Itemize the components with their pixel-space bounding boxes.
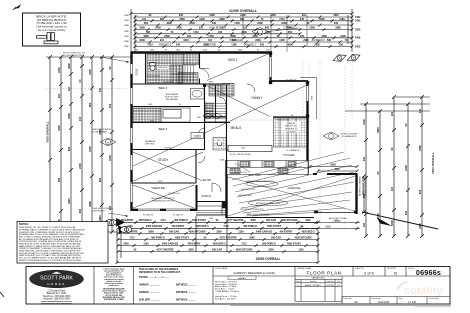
svg-text:2400: 2400 [78, 163, 82, 169]
svg-text:2360 ROBE: 2360 ROBE [204, 45, 217, 47]
svg-text:690: 690 [98, 177, 102, 182]
ensuite and stair hatch [147, 54, 183, 83]
svg-text:2980: 2980 [335, 27, 341, 30]
svg-text:3430: 3430 [57, 125, 61, 131]
bottom row cells [342, 297, 450, 305]
svg-text:690: 690 [160, 18, 165, 21]
ens2 hatch [209, 85, 221, 96]
svg-text:CONC FLOOR: CONC FLOOR [233, 172, 247, 174]
svg-text:2300: 2300 [268, 248, 274, 251]
svg-text:ROBE: ROBE [136, 68, 139, 75]
door arcs [198, 69, 255, 193]
svg-text:OWNER ...............: OWNER ............... [139, 291, 160, 294]
title block dividers [94, 267, 213, 305]
svg-text:240: 240 [300, 18, 305, 21]
svg-text:2300: 2300 [123, 242, 129, 245]
svg-text:WITNESS ...........: WITNESS ........... [176, 284, 196, 287]
svg-text:Drawn By: Drawn By [344, 298, 352, 300]
svg-text:11 Erindale Road,: 11 Erindale Road, [47, 290, 66, 293]
svg-text:WITNESS ...........: WITNESS ........... [176, 291, 196, 294]
svg-text:W.C.: W.C. [217, 140, 222, 142]
svg-text:110: 110 [67, 86, 71, 91]
svg-text:240: 240 [390, 111, 394, 116]
left dimension block [46, 55, 132, 234]
svg-text:permission.: permission. [108, 285, 119, 287]
svg-text:SCOTT PARK: SCOTT PARK [40, 276, 73, 282]
svg-text:2300: 2300 [216, 230, 222, 233]
svg-text:2400 GARAGE: 2400 GARAGE [146, 225, 163, 228]
svg-text:NOTE: CEILING IN BM: NOTE: CEILING IN BM [230, 154, 251, 156]
svg-text:450 ENTRY: 450 ENTRY [188, 242, 201, 245]
svg-text:PROVIDE 3 POWER PTS: PROVIDE 3 POWER PTS [240, 209, 264, 211]
island bench [228, 146, 272, 152]
svg-text:Balcatta W.A. 6021: Balcatta W.A. 6021 [47, 292, 67, 295]
svg-text:90 1840 90: 90 1840 90 [173, 215, 184, 217]
bath oval upstairs [191, 89, 205, 100]
svg-text:2980: 2980 [303, 39, 309, 42]
svg-text:4170 THEATRE: 4170 THEATRE [156, 248, 173, 251]
garage leader lines [232, 152, 354, 216]
svg-text:3430: 3430 [355, 20, 361, 23]
room label BED 3 [157, 127, 168, 131]
pantry note [281, 122, 301, 124]
interior walls [131, 53, 272, 202]
svg-text:2400: 2400 [355, 45, 361, 48]
svg-text:BUILDER .............: BUILDER ............. [139, 298, 160, 301]
svg-text:110: 110 [418, 108, 422, 113]
svg-text:90 1540 90: 90 1540 90 [143, 215, 154, 217]
svg-text:1712: 1712 [160, 219, 166, 222]
svg-text:SETBACK 31c BWK OVER: SETBACK 31c BWK OVER [256, 202, 281, 205]
svg-text:1100: 1100 [143, 242, 149, 245]
room label BED 2 [157, 86, 168, 90]
svg-text:4520 BED 3: 4520 BED 3 [138, 219, 152, 222]
svg-text:3400: 3400 [252, 35, 258, 38]
svg-text:HARMONY DESIGNER 2s (01CR): HARMONY DESIGNER 2s (01CR) [233, 271, 275, 275]
svg-text:100: 100 [212, 22, 217, 25]
svg-text:INFILL PANEL: INFILL PANEL [249, 174, 263, 177]
svg-text:1090: 1090 [321, 35, 327, 38]
stair treads [171, 65, 196, 83]
svg-text:3580: 3580 [188, 248, 194, 251]
svg-text:90 4580: 90 4580 [164, 147, 172, 149]
svg-text:110: 110 [98, 87, 102, 92]
svg-text:110: 110 [142, 18, 147, 21]
svg-text:230: 230 [179, 14, 184, 17]
svg-text:1200: 1200 [362, 119, 366, 125]
svg-text:1700: 1700 [208, 35, 214, 38]
svg-text:3430 BED 1: 3430 BED 1 [244, 45, 257, 47]
svg-text:4520 BED 3: 4520 BED 3 [212, 242, 226, 245]
svg-text:31c HIGH BRICK PIER: 31c HIGH BRICK PIER [63, 55, 84, 57]
svg-text:OH CPDS: OH CPDS [286, 132, 296, 134]
svg-text:890 PORCH: 890 PORCH [174, 219, 188, 222]
room label MEALS [230, 126, 242, 130]
svg-text:5390: 5390 [330, 164, 336, 167]
svg-text:1710: 1710 [193, 31, 199, 34]
svg-text:1100: 1100 [298, 248, 304, 251]
room diagonals garage [228, 176, 355, 216]
room diagonals study/theatre [133, 137, 203, 208]
svg-text:910: 910 [302, 14, 307, 17]
svg-text:2530: 2530 [189, 22, 195, 25]
svg-text:MEALS: MEALS [231, 126, 242, 130]
family fixture block [222, 84, 234, 97]
svg-text:590: 590 [327, 39, 332, 42]
svg-text:THEATRE (300 DROP): THEATRE (300 DROP) [152, 200, 174, 203]
svg-text:WITNESS ...........: WITNESS ........... [176, 298, 196, 301]
svg-text:590: 590 [57, 177, 61, 182]
svg-text:1363: 1363 [193, 134, 201, 138]
svg-text:2030: 2030 [241, 31, 247, 34]
diamond tag pair mid plan [203, 113, 222, 119]
room label PORCH [201, 194, 211, 198]
svg-text:4520 BED 3: 4520 BED 3 [301, 230, 315, 233]
svg-text:CEILING @ 28c: CEILING @ 28c [241, 189, 255, 191]
svg-text:240: 240 [108, 103, 112, 108]
svg-text:2400: 2400 [108, 155, 112, 161]
svg-text:2360: 2360 [418, 145, 422, 151]
svg-text:2400: 2400 [404, 165, 408, 171]
room diagonals bed1/family [196, 54, 308, 138]
svg-text:BWK: BWK [124, 41, 129, 43]
room label BED 1 [227, 58, 239, 62]
title block shadow [230, 305, 451, 307]
svg-text:1710: 1710 [279, 18, 285, 21]
svg-text:3580: 3580 [148, 230, 154, 233]
svg-text:4920 KITCHEN: 4920 KITCHEN [295, 236, 312, 239]
svg-text:3430: 3430 [176, 27, 182, 30]
svg-text:REFER TO ADDENDA FOR ALL PC FI: REFER TO ADDENDA FOR ALL PC FIXTURES, FI… [19, 259, 81, 262]
svg-text:BWK: BWK [124, 31, 129, 33]
svg-text:1200: 1200 [279, 39, 285, 42]
svg-text:590 GAR: 590 GAR [169, 230, 179, 233]
svg-text:3580: 3580 [249, 236, 255, 239]
svg-text:230: 230 [300, 35, 305, 38]
svg-text:4170 THEATRE: 4170 THEATRE [219, 236, 236, 239]
variations table [295, 276, 342, 301]
brick layer note box [23, 13, 81, 46]
svg-text:3430: 3430 [390, 220, 394, 226]
svg-text:100: 100 [187, 35, 192, 38]
svg-text:90 2300 90: 90 2300 90 [163, 82, 174, 84]
wall junction blocks [203, 52, 309, 118]
svg-text:VERANDA: VERANDA [145, 140, 156, 143]
svg-text:4690 BED 2: 4690 BED 2 [159, 45, 172, 47]
svg-text:GARAGE UNDER MAIN ROOF: GARAGE UNDER MAIN ROOF [246, 180, 275, 183]
diamond tags 2 and 3 [332, 47, 362, 68]
svg-text:STUDY: STUDY [158, 158, 170, 162]
svg-text:HOUSE NAME: HOUSE NAME [215, 267, 228, 270]
room label ENSUITE [157, 66, 169, 69]
svg-text:Checked By: Checked By [429, 298, 439, 300]
svg-text:NOTES:: NOTES: [19, 222, 29, 226]
svg-text:7920 OVERALL: 7920 OVERALL [431, 152, 435, 174]
svg-text:1712: 1712 [241, 242, 247, 245]
svg-text:910: 910 [78, 208, 82, 213]
svg-text:590 GAR: 590 GAR [266, 219, 276, 222]
svg-text:4170 THEATRE: 4170 THEATRE [226, 219, 243, 222]
svg-text:1:1 100: 1:1 100 [408, 301, 417, 304]
alfresco edge lines [300, 78, 317, 120]
svg-text:2980: 2980 [88, 201, 92, 207]
watermark cotality [396, 281, 443, 297]
svg-text:2 of 6: 2 of 6 [364, 272, 374, 276]
svg-text:2360: 2360 [179, 18, 185, 21]
svg-text:2360: 2360 [67, 113, 71, 119]
svg-text:110: 110 [208, 39, 213, 42]
porch steps [196, 202, 227, 215]
svg-text:FL CABINETS: FL CABINETS [287, 149, 300, 152]
svg-text:BEYOND: BEYOND [146, 144, 155, 146]
svg-text:910: 910 [418, 189, 422, 194]
svg-text:Date Var: Date Var [327, 280, 334, 283]
svg-text:240: 240 [218, 31, 223, 34]
svg-text:2400 GARAGE: 2400 GARAGE [162, 242, 179, 245]
title block outer [26, 267, 450, 305]
svg-text:2080: 2080 [230, 35, 236, 38]
bottom dimension block [116, 216, 320, 264]
dashed projection lines [17, 60, 345, 230]
svg-text:VARIATIONS: VARIATIONS [312, 277, 325, 280]
svg-text:4920 KITCHEN: 4920 KITCHEN [281, 219, 298, 222]
dims above garage top wall [309, 164, 359, 173]
svg-text:JOB No: JOB No [408, 268, 414, 270]
svg-text:890 PORCH: 890 PORCH [262, 242, 276, 245]
svg-text:BWK: BWK [124, 46, 129, 48]
svg-text:HIGHSCALE: HIGHSCALE [229, 39, 243, 42]
wc hatch [213, 138, 226, 151]
scott park homes logo [30, 270, 84, 288]
svg-text:110: 110 [243, 27, 248, 30]
svg-text:cotality: cotality [404, 285, 443, 297]
room label ENTRY [202, 178, 212, 182]
svg-text:1180: 1180 [339, 18, 345, 21]
svg-text:Rev: Rev [296, 281, 299, 283]
pantry hatch [274, 118, 308, 147]
svg-text:2030: 2030 [319, 18, 325, 21]
stair landing hatch [205, 103, 213, 116]
svg-text:4920 KITCHEN: 4920 KITCHEN [189, 230, 206, 233]
room label THEATRE [151, 186, 166, 190]
room label GARAGE [287, 186, 300, 190]
svg-text:5390: 5390 [325, 225, 331, 228]
svg-text:OWNER ...............: OWNER ............... [139, 284, 160, 287]
svg-text:110: 110 [390, 186, 394, 191]
svg-text:4920: 4920 [334, 168, 340, 171]
svg-text:1090: 1090 [209, 14, 215, 17]
svg-text:ENSUITE: ENSUITE [158, 67, 168, 69]
svg-text:110: 110 [404, 210, 408, 215]
svg-text:890 PORCH: 890 PORCH [243, 225, 257, 228]
svg-text:3430: 3430 [139, 39, 145, 42]
svg-text:910: 910 [199, 27, 204, 30]
svg-text:BWK: BWK [124, 20, 129, 22]
svg-text:240: 240 [78, 116, 82, 121]
svg-text:1712: 1712 [223, 225, 229, 228]
note diamond right of kitchen [323, 132, 339, 140]
svg-text:2400: 2400 [155, 27, 161, 30]
svg-text:2400: 2400 [340, 35, 346, 38]
notes box [17, 222, 108, 264]
svg-text:11/01/2006: 11/01/2006 [378, 301, 390, 304]
svg-text:350: 350 [144, 22, 149, 25]
bottom right arrow mark [362, 212, 438, 229]
svg-text:2980: 2980 [67, 63, 71, 69]
svg-text:4920 KITCHEN: 4920 KITCHEN [236, 248, 253, 251]
svg-text:1200: 1200 [309, 27, 315, 30]
svg-text:2080: 2080 [257, 22, 263, 25]
svg-text:THEATRE: THEATRE [151, 186, 165, 190]
svg-text:1700: 1700 [234, 22, 240, 25]
kitchen bench row [227, 161, 308, 175]
lower stair flight [205, 103, 226, 122]
exterior walls [131, 52, 358, 218]
svg-text:Var: Var [337, 281, 340, 283]
svg-text:www.scottparkhomes.com.au: www.scottparkhomes.com.au [41, 300, 72, 303]
svg-text:ENTRY: ENTRY [203, 178, 212, 182]
svg-text:1180: 1180 [231, 44, 237, 47]
svg-text:PANTRY 32c: PANTRY 32c [285, 125, 297, 128]
svg-text:COVED CLG: COVED CLG [168, 193, 180, 195]
svg-text:TO GARAGE DR: TO GARAGE DR [341, 135, 357, 138]
svg-text:B: B [394, 270, 397, 275]
svg-text:DATED: ........./........./...: DATED: ........./........./......... [139, 276, 169, 279]
areas cell [228, 276, 256, 279]
svg-text:2430: 2430 [355, 28, 361, 31]
svg-text:REFER ELEVATIONS: REFER ELEVATIONS [365, 176, 368, 196]
toilet ensuite [150, 65, 155, 70]
svg-text:TO WET AREAS: TO WET AREAS [92, 131, 108, 134]
svg-text:450 ENTRY: 450 ENTRY [280, 230, 293, 233]
svg-text:4580 STUDY: 4580 STUDY [267, 225, 281, 228]
svg-text:GABLE ROOF OVER: GABLE ROOF OVER [362, 176, 365, 196]
svg-text:BWK: BWK [124, 15, 129, 17]
svg-text:be a 2 course brick): be a 2 course brick) [38, 28, 65, 32]
svg-text:70 1700 SD: 70 1700 SD [286, 79, 297, 81]
svg-text:3430: 3430 [270, 14, 276, 17]
svg-text:METER BOX: METER BOX [93, 211, 105, 213]
svg-text:BED 2: BED 2 [159, 86, 168, 90]
svg-text:1712: 1712 [129, 236, 135, 239]
svg-text:2530: 2530 [164, 35, 170, 38]
svg-text:Scale: Scale [399, 298, 404, 300]
svg-text:FAMILY: FAMILY [251, 96, 263, 100]
svg-text:4580 STUDY: 4580 STUDY [175, 236, 189, 239]
svg-text:DS: DS [354, 301, 358, 304]
svg-text:TOTAL AREA = 274.08m²: TOTAL AREA = 274.08m² [215, 290, 239, 293]
svg-text:100: 100 [339, 44, 344, 47]
svg-text:2400: 2400 [240, 14, 246, 17]
room label KITCHEN [282, 153, 295, 157]
svg-text:ALFRESCO: ALFRESCO [312, 39, 325, 42]
svg-text:A: A [107, 140, 109, 144]
svg-text:2400: 2400 [355, 16, 361, 19]
svg-text:MAKE GOOD DRIVEWAY: MAKE GOOD DRIVEWAY [246, 213, 270, 216]
svg-text:SHEET No: SHEET No [355, 268, 364, 270]
svg-text:4520 BED 3: 4520 BED 3 [195, 225, 209, 228]
svg-text:4580 STUDY: 4580 STUDY [287, 242, 301, 245]
svg-text:DOOR: DOOR [335, 221, 342, 223]
svg-text:910: 910 [57, 93, 61, 98]
svg-text:GARAGE: GARAGE [288, 186, 301, 190]
leader text ovals [246, 181, 288, 205]
svg-text:590: 590 [240, 18, 245, 21]
svg-text:1810: 1810 [98, 215, 102, 221]
svg-text:KITCHEN: KITCHEN [283, 153, 295, 157]
svg-text:4690: 4690 [166, 22, 172, 25]
room label STUDY [157, 158, 169, 162]
svg-text:06966s: 06966s [416, 268, 441, 277]
svg-text:590 GAR: 590 GAR [271, 236, 281, 239]
structural post note top right [252, 28, 268, 36]
WIR hatch [178, 73, 198, 84]
svg-text:590 GAR: 590 GAR [212, 248, 222, 251]
svg-text:2408: 2408 [355, 37, 361, 40]
top dimension block [124, 9, 361, 52]
svg-text:2300: 2300 [305, 219, 311, 222]
laundry/bath hatch strip [133, 108, 161, 122]
svg-text:1810: 1810 [333, 14, 339, 17]
svg-text:1710: 1710 [147, 44, 153, 47]
svg-text:4690: 4690 [143, 35, 149, 38]
svg-text:1/02/2006: 1/02/2006 [326, 285, 334, 287]
svg-text:2360: 2360 [255, 39, 261, 42]
svg-text:2360: 2360 [418, 223, 422, 229]
svg-text:CEIL AB HALL: CEIL AB HALL [165, 98, 179, 101]
svg-text:350: 350 [260, 44, 265, 47]
svg-text:Roof Area + 265.35m²: Roof Area + 265.35m² [215, 298, 236, 301]
svg-text:690: 690 [265, 27, 270, 30]
svg-text:1090: 1090 [139, 27, 145, 30]
robe hatch top [184, 54, 200, 65]
svg-text:RECESS BWK: RECESS BWK [238, 195, 252, 197]
svg-text:590: 590 [146, 31, 151, 34]
svg-text:Date Drawn: Date Drawn [372, 297, 382, 300]
boxed ref 1363 [191, 133, 204, 139]
room label FAMILY [250, 96, 264, 100]
svg-text:Facsimile: (08) 9241 9400: Facsimile: (08) 9241 9400 [43, 298, 70, 300]
svg-text:REG CLG 31c: REG CLG 31c [277, 119, 290, 121]
svg-text:690: 690 [67, 146, 71, 151]
svg-text:3430: 3430 [88, 69, 92, 75]
svg-text:WALK IN: WALK IN [287, 122, 296, 125]
svg-text:3580: 3580 [250, 219, 256, 222]
svg-text:BED 3: BED 3 [159, 127, 168, 131]
svg-text:1200: 1200 [199, 18, 205, 21]
garage bottom dims [299, 174, 368, 230]
right title cells row1 [213, 267, 450, 302]
svg-text:590: 590 [88, 102, 92, 107]
svg-text:2530: 2530 [314, 44, 320, 47]
svg-text:1810: 1810 [183, 39, 189, 42]
window tag diamond left [100, 138, 116, 146]
svg-text:1200: 1200 [88, 146, 92, 152]
svg-text:350: 350 [288, 31, 293, 34]
svg-text:450 ENTRY: 450 ENTRY [172, 225, 185, 228]
pen mark top left [14, 4, 21, 9]
room label W.C. [216, 139, 223, 142]
svg-text:4.15: 4.15 [337, 285, 340, 287]
svg-text:11090 OVERALL: 11090 OVERALL [229, 9, 258, 13]
svg-text:AREAS: AREAS [238, 277, 246, 280]
svg-text:BED 1: BED 1 [228, 58, 237, 62]
svg-text:15590 OVERALL: 15590 OVERALL [256, 257, 281, 261]
svg-text:910: 910 [160, 39, 165, 42]
svg-text:2400: 2400 [57, 67, 61, 73]
svg-text:7530 OVERALL: 7530 OVERALL [46, 121, 50, 143]
svg-text:1100: 1100 [238, 230, 244, 233]
